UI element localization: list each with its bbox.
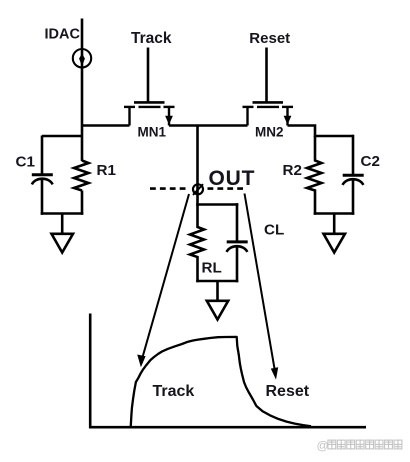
- annotation arrow (Reset): [245, 194, 279, 380]
- svg-text:Track: Track: [131, 30, 172, 47]
- svg-text:CL: CL: [264, 221, 284, 238]
- annotation arrow (Track): [137, 194, 189, 367]
- label OUT: [209, 167, 256, 190]
- resistor R2: [307, 136, 322, 215]
- svg-text:Reset: Reset: [249, 30, 290, 47]
- label R1: [97, 162, 117, 179]
- resistor R1: [74, 161, 89, 191]
- dashed line through OUT node: [150, 187, 246, 190]
- wire: right ground stub: [333, 214, 336, 235]
- wire: center ground stub: [216, 281, 219, 301]
- label MN2: [255, 125, 284, 140]
- svg-text:OUT: OUT: [209, 167, 256, 190]
- svg-text:C2: C2: [361, 153, 380, 170]
- watermark: [317, 439, 402, 453]
- wire: IDAC vertical rail: [81, 19, 84, 162]
- node OUT (circle with slash): [193, 184, 203, 195]
- svg-text:RL: RL: [202, 260, 222, 277]
- wire: R1C1 top rail: [42, 135, 82, 138]
- ground (right): [324, 234, 346, 253]
- label Reset (graph): [266, 383, 310, 400]
- label Reset: [249, 30, 290, 47]
- label MN1: [138, 125, 167, 140]
- capacitor CL: [227, 242, 248, 252]
- wire: CL bottom lead: [236, 246, 239, 282]
- label R2: [283, 162, 302, 179]
- svg-text:MN1: MN1: [138, 125, 167, 140]
- svg-text:MN2: MN2: [255, 125, 284, 140]
- wire: C2 top lead: [352, 135, 355, 175]
- wire: MN2 drain to R2C2 node: [288, 126, 316, 138]
- wire: OUT column vertical: [196, 126, 199, 206]
- ground (left): [52, 234, 74, 253]
- wire: CL top lead: [236, 203, 239, 242]
- label C1: [16, 154, 36, 171]
- ground (center): [207, 301, 228, 320]
- wire: R1C1 bottom rail: [41, 212, 84, 215]
- waveform curve: [131, 337, 311, 427]
- wire: C1 bottom lead: [41, 179, 44, 215]
- label IDAC: [45, 27, 81, 43]
- graph Y axis: [89, 314, 92, 429]
- svg-text:IDAC: IDAC: [45, 27, 81, 43]
- label RL: [202, 260, 222, 277]
- label CL: [264, 221, 284, 238]
- svg-text:C1: C1: [16, 154, 36, 171]
- capacitor C1: [32, 175, 53, 185]
- wire: Track gate lead: [147, 48, 150, 102]
- wire: R1 bottom lead: [81, 191, 84, 215]
- capacitor C2: [343, 175, 364, 185]
- wire: C2 bottom lead: [352, 179, 355, 215]
- wire: R2C2 top rail: [315, 135, 353, 138]
- transistor MN1: [124, 102, 175, 125]
- svg-text:R1: R1: [97, 162, 117, 179]
- wire: MN1 drain to MN2 source (through OUT column): [169, 124, 248, 127]
- wire: RLCL bottom rail: [196, 280, 238, 283]
- svg-text:R2: R2: [283, 162, 302, 179]
- label Track (graph): [153, 383, 195, 400]
- wire: C1 top lead: [41, 136, 44, 175]
- svg-text:Track: Track: [153, 383, 195, 400]
- wire: MN1 source to IDAC node: [82, 124, 130, 127]
- current source IDAC: [73, 49, 91, 67]
- label Track: [131, 30, 172, 47]
- svg-text:Reset: Reset: [266, 383, 310, 400]
- wire: R2C2 bottom rail: [314, 212, 355, 215]
- resistor RL: [190, 205, 204, 283]
- transistor MN2: [243, 102, 294, 125]
- wire: left ground stub: [61, 214, 64, 235]
- wire: RLCL top rail: [196, 203, 238, 206]
- svg-text:@: @: [317, 439, 329, 453]
- graph X axis: [89, 426, 366, 429]
- label C2: [361, 153, 380, 170]
- wire: Reset gate lead: [265, 48, 268, 102]
